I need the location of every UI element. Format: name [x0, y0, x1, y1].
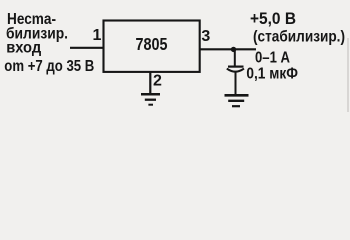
- wire: pin 2 down to ground: [149, 72, 151, 94]
- capacitor C1 0,1 мкФ (polarized, curved bottom plate): [227, 67, 244, 72]
- scan page-edge streak: [347, 38, 349, 112]
- node: output junction: [231, 47, 236, 52]
- regulator U1 7805 (box): [104, 21, 200, 72]
- svg-text:2: 2: [153, 73, 162, 90]
- svg-text:0–1 А: 0–1 А: [255, 50, 290, 67]
- svg-text:3: 3: [201, 28, 210, 45]
- svg-text:7805: 7805: [136, 34, 168, 54]
- ground (under capacitor): [225, 95, 249, 106]
- label: +5,0 В (стабилизир.) output annotation: [250, 9, 345, 46]
- wire: junction down to capacitor: [234, 49, 236, 66]
- ground (under pin 2): [141, 94, 160, 105]
- wire: input wire to pin 1: [70, 47, 103, 49]
- svg-text:1: 1: [93, 27, 102, 44]
- svg-text:+5,0 В: +5,0 В: [250, 9, 296, 28]
- paper background: [0, 0, 350, 112]
- label: Нестабилизир. вход от +7 до 35 В (input annotation): [4, 11, 94, 75]
- wire: pin 3 output wire: [200, 48, 256, 50]
- wire: capacitor down to ground: [235, 72, 237, 95]
- svg-text:0,1 мкФ: 0,1 мкФ: [246, 66, 298, 83]
- svg-text:вход: вход: [6, 40, 41, 57]
- svg-text:(стабилизир.): (стабилизир.): [253, 29, 345, 46]
- svg-text:оm +7 до 35 В: оm +7 до 35 В: [4, 58, 94, 75]
